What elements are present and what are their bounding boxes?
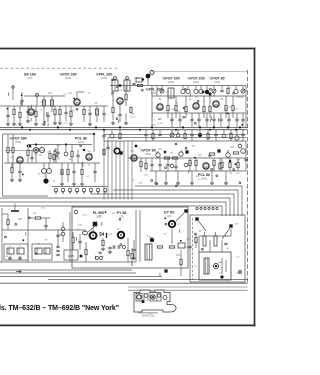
circle osc coil (156, 153, 160, 157)
diagram: tube pos 4 (157, 294, 160, 297)
svg-text:½PCF 280: ½PCF 280 (59, 73, 76, 77)
svg-text:(4/3b): (4/3b) (15, 141, 21, 144)
resistor R15 (209, 106, 211, 111)
capacitor C45 (190, 133, 193, 135)
node dot psu11 (35, 253, 37, 255)
ground g18 (109, 250, 111, 252)
resistor R60 (145, 163, 147, 168)
resistor R42 (157, 246, 162, 248)
capacitor C44 (158, 133, 161, 135)
coil L5 pair (181, 89, 185, 93)
dark mark t5 (135, 145, 138, 148)
wire: drop x246 (245, 86, 247, 128)
node bus junction b7 (235, 129, 237, 131)
wire: audio box top (3, 133, 95, 135)
transformer FB2 hatch (145, 244, 152, 260)
diagram: inset rect2 (150, 293, 161, 302)
node vidR15 (239, 182, 241, 184)
lamp pilot (61, 227, 65, 231)
resistor R54 (230, 133, 232, 138)
node bus tap 3 (204, 207, 206, 209)
resistor R43 (169, 246, 174, 248)
box3 mains (64, 250, 78, 260)
node dot audL2 (27, 145, 29, 147)
node vidR0 (175, 185, 177, 187)
resistor R44 (131, 253, 133, 258)
resistor R17 (232, 105, 234, 110)
wire: stub psu0 (25, 232, 27, 236)
tube V11 DY 87 envelope (169, 221, 175, 227)
resistor R19 (184, 133, 186, 138)
svg-text:1M: 1M (158, 119, 161, 121)
wire: stub ifR24 (217, 118, 219, 122)
tube V12 ring (114, 148, 120, 154)
node bus junction 7 (199, 126, 201, 128)
ground g3 (43, 122, 45, 124)
node dot ifR12 (227, 113, 229, 115)
diagram: tube pos 3 (151, 295, 155, 299)
dark mark t1 (202, 91, 204, 93)
resistor R9 (112, 107, 114, 112)
node dot hout8 (105, 211, 107, 213)
diagram: inset bars (143, 293, 145, 302)
wire: drop x152 (151, 86, 153, 128)
resistor R37 (35, 217, 40, 219)
diagram: tube pos 2 (144, 294, 148, 298)
resistor R39 (72, 237, 74, 242)
resistor R28 (164, 157, 169, 159)
node dot ifL4 (44, 121, 46, 123)
ground g25 (7, 122, 9, 124)
resistor R16 (225, 105, 227, 110)
circle hang1 (176, 134, 180, 138)
node dot dy8 (164, 217, 166, 219)
wire: bundle v6 (131, 141, 133, 200)
coil L3 IF (96, 109, 99, 115)
wire: bundle v5 (127, 141, 129, 200)
wire: midleft box right edge (93, 134, 95, 152)
node ifL7 (21, 103, 23, 105)
node antenna terminal (12, 86, 14, 88)
blob bus j extra (93, 133, 95, 135)
wire: stub ifL3 (47, 123, 49, 127)
node ifM9 (141, 89, 143, 91)
connector pin sym3 (69, 189, 72, 192)
svg-text:1M: 1M (226, 248, 229, 250)
resistor R52 (152, 133, 154, 138)
capacitor C28 (166, 163, 169, 165)
capacitor C41 (46, 114, 49, 116)
diagram: inset rect1 (136, 294, 142, 302)
ground g17 (225, 181, 227, 183)
wire: stub ifR5 (210, 119, 212, 123)
node arrow tap (16, 270, 21, 273)
ground g2 (19, 122, 21, 124)
resistor R31 (195, 160, 197, 165)
node crt9 (202, 248, 204, 250)
capacitor C43 (144, 133, 147, 135)
resistor R23 (49, 153, 51, 158)
capacitor C50 (244, 158, 247, 160)
wire: page top rule (0, 48, 255, 50)
wire: right row A (152, 95, 246, 97)
wire: heater line 1 (0, 269, 132, 271)
capacitor C34 (78, 240, 81, 242)
ground g20 (9, 256, 11, 258)
wire: stub hout1 (71, 219, 73, 223)
rectifier D2 selenium (17, 248, 24, 254)
wire: stub hout0 (101, 222, 103, 226)
dark mark a2 (83, 149, 85, 151)
resistor R51 (54, 109, 56, 114)
ground g16 (211, 181, 213, 183)
wire: heater line 2 (0, 272, 136, 274)
node bus junction 3 (95, 126, 97, 128)
wire: tuner row main (5, 105, 108, 107)
capacitor C51 (56, 151, 59, 153)
wire: tuner frame top (152, 71, 248, 73)
coil L8 (234, 89, 238, 93)
resistor R26 (81, 169, 83, 174)
node ifR33 (233, 92, 235, 94)
wire: bundle feed 2 (108, 138, 246, 200)
resistor R33 (233, 152, 238, 154)
resistor R57 (11, 167, 13, 172)
node dot vidR13 (235, 163, 237, 165)
resistor R13 (185, 106, 187, 111)
svg-text:(4/3b): (4/3b) (168, 81, 174, 84)
ground g4 (59, 121, 61, 123)
dark mark t3 (164, 151, 166, 153)
resistor R48 (214, 236, 217, 246)
wire: audio box left (2, 134, 4, 196)
resistor R4 (70, 111, 72, 116)
tube V5a ½PCF 200 envelope (193, 103, 199, 109)
resistor R2 (19, 112, 21, 117)
circle extra e1 (170, 164, 174, 168)
wire: IF strip top line (110, 85, 246, 87)
resistor R50 (35, 111, 37, 116)
ground g15 (191, 181, 193, 183)
svg-text:½PCF 200: ½PCF 200 (187, 77, 204, 81)
node dot ifR3 (183, 107, 185, 109)
wire: yoke lead 4 (0, 198, 230, 216)
resistor R12 (175, 105, 177, 110)
ground g27 (19, 178, 21, 180)
resistor R3 (59, 109, 61, 114)
wire: V2 plate lead (77, 92, 84, 99)
resistor R35 (229, 162, 231, 167)
resistor R27 (140, 161, 142, 166)
capacitor C5 (102, 112, 105, 114)
svg-text:PCL 86: PCL 86 (198, 173, 210, 177)
capacitor C20 (30, 156, 33, 158)
tube V7 PCL 86 triode (86, 154, 92, 160)
dark box m4 (184, 209, 187, 212)
dark box m3 (217, 149, 220, 152)
capacitor C3 (64, 111, 67, 113)
capacitor C42 (6, 114, 9, 116)
resistor R59 (219, 163, 221, 168)
capacitor C6 (132, 82, 135, 84)
ground g24 (54, 121, 56, 123)
circle pot P2 (241, 149, 246, 154)
svg-text:(4/3b): (4/3b) (193, 81, 199, 84)
picture tube B1 grid circle (213, 263, 218, 268)
tube V6a ½PCF 80 envelope (213, 101, 219, 107)
resistor R41 (127, 250, 129, 255)
node hout11 (100, 252, 102, 254)
node ifM1 (117, 86, 119, 88)
wire: crt lead2 (209, 240, 211, 252)
wire: stub audL16 (16, 159, 18, 163)
wire: schematic right dashed border (247, 70, 249, 284)
wire: right vert x157 (156, 86, 158, 97)
wire: mid row y171 (150, 170, 246, 172)
wire: B+ bus upper (0, 126, 248, 128)
diagram: chassis inset outline (134, 290, 176, 312)
resistor R5 (83, 109, 85, 114)
circle S3 (179, 152, 183, 156)
capacitor C37 (188, 245, 191, 247)
wire: audio box bottom (3, 195, 49, 197)
node bus junction b5 (175, 129, 177, 131)
resistor R14 (203, 106, 205, 111)
rectifier D4 selenium (35, 248, 42, 254)
transformer IF2 (124, 80, 130, 91)
wire: stub vidR12 (227, 150, 229, 154)
wire: heater line 4 (48, 279, 248, 281)
node bus junction 5 (151, 126, 153, 128)
resistor R53 (207, 133, 209, 138)
svg-text:(1/5): (1/5) (167, 215, 172, 218)
resistor R30 (189, 160, 191, 165)
node ifL5 (76, 108, 78, 110)
node vidR27 (151, 180, 153, 182)
capacitor C25 (93, 170, 96, 172)
wire: heater line 3 (0, 276, 162, 278)
wire: page bottom rule (0, 324, 255, 326)
wire: B+ bus lower (0, 129, 248, 131)
capacitor C18 (241, 118, 244, 120)
wire: psu vert x70 (69, 212, 71, 262)
svg-text:(4/3b): (4/3b) (65, 77, 71, 80)
capacitor C12 (197, 118, 200, 120)
coil L7 core (205, 90, 209, 94)
resistor R22 (27, 150, 29, 155)
capacitor C17 (235, 118, 238, 120)
ground g13 (165, 181, 167, 183)
rectifier D1 selenium (7, 248, 14, 254)
wire: left edge stub1 (24, 95, 28, 97)
wire: bundle v2 (115, 141, 117, 200)
wire: stub audL9 (82, 162, 84, 166)
dark mark psu (80, 255, 83, 258)
ground g21 (19, 256, 21, 258)
node bus junction 8 (213, 126, 215, 128)
node dot vidR31 (194, 157, 196, 159)
wire: stub audL21 (12, 163, 14, 167)
node vidR8 (216, 175, 218, 177)
wire: stub ifR30 (213, 93, 215, 97)
svg-text:1M: 1M (131, 113, 134, 115)
node audL5 (54, 150, 56, 152)
node dot ifR28 (241, 124, 243, 126)
capacitor C38 (224, 242, 227, 244)
resistor R21 (12, 147, 14, 152)
resistor R6 (137, 84, 142, 86)
resistor R62 (71, 151, 73, 156)
wire: conn row line (52, 186, 108, 188)
node psu6 (28, 217, 30, 219)
node ifM3 (116, 118, 118, 120)
tube V6b ½PCF 80 envelope (131, 155, 137, 161)
wire: crt dash inner (192, 218, 194, 280)
capacitor C32 stack (56, 245, 59, 247)
diagram: tube pos 1 (137, 295, 141, 299)
ground g7 (112, 121, 114, 123)
wire: bundle feed 1 (104, 135, 246, 200)
circle pot P1 (226, 153, 231, 158)
node vidR10 (175, 143, 177, 145)
resistor R58 (209, 153, 214, 155)
wire: vert conn B (159, 273, 161, 276)
node vidR30 (209, 155, 211, 157)
node ifM6 (112, 79, 114, 81)
capacitor C29 (174, 165, 177, 167)
svg-text:PCL 86: PCL 86 (75, 137, 87, 141)
wire: det wire (35, 153, 37, 163)
node dot ifL12 (7, 108, 9, 110)
svg-text:1M: 1M (192, 146, 195, 148)
ground g1 (13, 122, 15, 124)
capacitor C11 (190, 118, 193, 120)
resistor R8 (130, 107, 132, 112)
node hout5 (119, 218, 121, 220)
rectifier box1 (4, 244, 28, 260)
node audL11 (80, 145, 82, 147)
capacitor C9 (170, 118, 173, 120)
circle extra e3 (238, 144, 242, 148)
ground g6 (89, 122, 91, 124)
svg-text:250: 250 (18, 218, 23, 221)
blob audio j1 (35, 143, 37, 145)
capacitor C36 (132, 248, 135, 250)
capacitor C8 (220, 89, 223, 91)
wire: yoke lead 6 (0, 206, 222, 216)
node bus junction b6 (209, 129, 211, 131)
svg-text:(4/3): (4/3) (28, 77, 33, 80)
svg-text:Röhrenlageplan: Röhrenlageplan (138, 311, 158, 315)
capacitor C1 (20, 99, 23, 101)
capacitor C16 (227, 118, 230, 120)
wire: stub ifL10 (7, 92, 9, 96)
svg-text:(7/5b): (7/5b) (145, 153, 151, 156)
wire: crt leads (199, 229, 231, 252)
resistor R10 (227, 88, 229, 93)
connector pin sym2 (62, 189, 65, 192)
capacitor C14 (212, 118, 215, 120)
node vidR11 (165, 167, 167, 169)
rect m5 (178, 243, 185, 248)
capacitor C2 top cap (36, 94, 39, 97)
node vidR5 (211, 168, 213, 170)
capacitor C52 (76, 154, 79, 156)
coil L9 (110, 134, 114, 138)
circle S2 (39, 147, 44, 152)
wire: vert line x140 (139, 210, 141, 262)
node vidR33 (156, 183, 158, 185)
svg-text:(1/6b): (1/6b) (201, 178, 207, 181)
trimmer CT3 (241, 89, 245, 93)
ground g11 (81, 182, 83, 184)
wire: antenna input stub (12, 88, 14, 100)
wire: bundle v1 (111, 141, 113, 200)
node psu3 (15, 223, 17, 225)
blob j2 (198, 133, 202, 137)
wire: audio row (4, 162, 100, 164)
capacitor C13 (205, 118, 208, 120)
node dot audL6 (22, 174, 24, 176)
wire: stub hout6 (94, 256, 96, 260)
node bus tap 5 (212, 207, 214, 209)
wire: stub ifM4 (117, 120, 119, 124)
wire: stub hout10 (76, 237, 78, 241)
trimmer CT2 (212, 89, 216, 93)
capacitor C48 (106, 146, 109, 148)
svg-text:½PFL 200: ½PFL 200 (96, 73, 113, 77)
connector pin sym8 (104, 189, 107, 192)
wire: chassis dashed boundary (0, 67, 118, 69)
node bus junction 6 (182, 126, 184, 128)
node ifR18 (197, 101, 199, 103)
coil L4 with core (146, 74, 151, 79)
resistor R32 (213, 160, 215, 165)
svg-text:470: 470 (134, 77, 139, 80)
connector pin sym5 (83, 189, 86, 192)
capacitor C26 (150, 163, 153, 165)
wire: dy lead (171, 227, 173, 244)
resistor R61 (53, 154, 55, 159)
capacitor C7 (118, 113, 121, 115)
blob speaker junction (43, 178, 48, 183)
svg-text:1M: 1M (230, 146, 233, 149)
dark box m6 (164, 269, 167, 272)
node bus tap 1 (196, 207, 198, 209)
ground g12 (155, 181, 157, 183)
dark box yoke conn 2 (229, 224, 232, 227)
ground g23 (35, 122, 37, 124)
resistor R45 (180, 259, 182, 264)
svg-text:B250: B250 (57, 234, 63, 237)
wire: stub audL13 (61, 171, 63, 175)
node bus tap 4 (208, 207, 210, 209)
node bus tap 2 (200, 207, 202, 209)
dark box m2 (185, 150, 188, 153)
wire: vert drop A (131, 262, 133, 266)
coil L6 pair (194, 89, 198, 93)
svg-text:ls. TM–632/B – TM–692/B "Ne: ls. TM–632/B – TM–692/B "New York" (0, 305, 119, 312)
transformer IF3 (168, 88, 174, 98)
node psu9 (5, 236, 7, 238)
circle C22 electrolytic (42, 169, 47, 174)
svg-text:470: 470 (48, 92, 53, 95)
circle hang2 (222, 134, 226, 138)
ground g26 (11, 178, 13, 180)
capacitor C31 (56, 234, 59, 236)
resistor R18 (119, 133, 121, 138)
node vidR28 (233, 169, 235, 171)
